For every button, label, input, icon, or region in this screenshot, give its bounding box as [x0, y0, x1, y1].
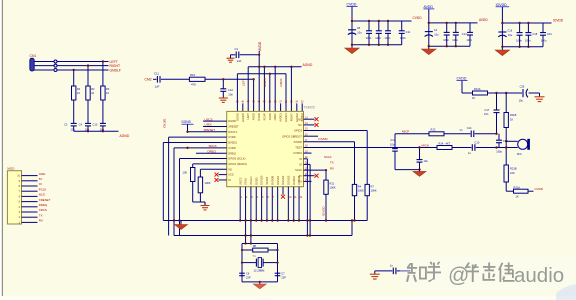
node junctions IOVDD — [501, 22, 529, 48]
wire CM2 to C11 — [153, 78, 157, 80]
capacitor C14m — [471, 131, 474, 138]
svg-text:R4: R4 — [358, 185, 362, 189]
wire top pin 10 — [285, 74, 287, 112]
resistor R1 — [72, 86, 76, 100]
wire pin L8 — [180, 158, 227, 160]
wire pin R12 stub — [304, 180, 312, 182]
power ground IOVDD — [495, 50, 509, 56]
svg-text:IO: IO — [299, 163, 302, 167]
wire drop to C17col — [496, 93, 498, 110]
wire gnd to C1 — [230, 55, 232, 58]
svg-text:100n: 100n — [466, 38, 472, 42]
wire to R12A — [462, 92, 473, 94]
wire C20 stem — [419, 148, 421, 160]
pin names left column — [228, 119, 247, 182]
capacitor C17f — [392, 149, 398, 152]
capacitor C4a (polarized) — [425, 32, 433, 37]
svg-text:USDI: USDI — [205, 123, 212, 127]
node junctions crystal — [241, 242, 279, 283]
svg-text:CVDD: CVDD — [457, 77, 467, 81]
svg-text:SCLK: SCLK — [295, 168, 302, 172]
wire AVDD stem — [428, 9, 430, 49]
node junctions bus A — [173, 219, 356, 221]
node junctions mic — [418, 133, 507, 171]
svg-text:DREQ: DREQ — [39, 203, 48, 207]
svg-text:AGND2: AGND2 — [295, 113, 299, 122]
svg-text:audio: audio — [514, 264, 564, 287]
svg-text:C4: C4 — [434, 28, 438, 32]
node junctions bus B — [244, 234, 311, 236]
svg-text:10u: 10u — [357, 31, 362, 35]
svg-text:10n: 10n — [484, 112, 489, 116]
svg-text:XDCS: XDCS — [238, 177, 242, 184]
svg-text:MOD: MOD — [7, 167, 15, 171]
svg-text:SDCS: SDCS — [209, 144, 217, 148]
svg-text:GPIO1 (SDATA): GPIO1 (SDATA) — [228, 162, 247, 166]
svg-text:C2: C2 — [64, 123, 68, 127]
svg-text:100n: 100n — [452, 38, 458, 42]
wire drop x310 — [309, 164, 311, 235]
svg-text:XRESET: XRESET — [39, 198, 51, 202]
connector CN1 jack body — [30, 58, 34, 71]
svg-text:C10: C10 — [93, 123, 98, 127]
svg-text:100K: 100K — [330, 186, 336, 190]
svg-text:C14: C14 — [467, 126, 472, 130]
svg-text:IO: IO — [228, 178, 231, 182]
svg-text:5V: 5V — [39, 177, 43, 181]
svg-text:GBUF: GBUF — [273, 113, 277, 121]
ground left of C1 — [227, 58, 235, 62]
svg-text:XCS: XCS — [228, 173, 234, 177]
svg-text:AGND: AGND — [120, 134, 130, 138]
resistor R11B — [504, 113, 508, 128]
wire net LEFT — [57, 61, 109, 63]
svg-text:AVDD2: AVDD2 — [300, 113, 304, 122]
svg-text:GBUF: GBUF — [279, 78, 283, 87]
no-connect X pin B9 — [281, 195, 285, 199]
svg-text:CM2: CM2 — [145, 78, 152, 82]
resistor R4 — [352, 184, 356, 195]
wire pin R8 — [304, 158, 308, 160]
no-connect X pin L12 — [215, 178, 219, 182]
ground below R5 R6 — [201, 202, 210, 210]
svg-text:10n: 10n — [100, 128, 105, 132]
svg-text:100n: 100n — [366, 36, 372, 40]
wire R3 to C10 — [102, 100, 104, 123]
wire bus B — [174, 235, 352, 237]
svg-text:10n: 10n — [71, 128, 76, 132]
svg-text:C11: C11 — [154, 72, 159, 76]
wire pin L4 — [169, 136, 227, 138]
wire R10 to chip — [205, 78, 254, 80]
pin numbers bottom — [241, 197, 303, 199]
capacitor C16 (polarized) — [498, 32, 506, 37]
svg-text:100K: 100K — [371, 189, 377, 193]
pin numbers right — [305, 117, 308, 181]
svg-text:AGND1: AGND1 — [284, 113, 288, 122]
wire top pin 4 — [253, 79, 255, 111]
pin names right column — [282, 117, 302, 183]
hanzi zhi2 — [483, 263, 496, 281]
wires MOD pins — [22, 176, 38, 223]
wire pin R5 to R4 drop — [304, 141, 355, 143]
capacitor C10m — [472, 144, 475, 151]
svg-text:R11B: R11B — [510, 113, 517, 117]
wire crystal top rail — [242, 243, 278, 245]
svg-text:DGND: DGND — [228, 119, 236, 123]
svg-text:22P: 22P — [281, 276, 286, 280]
wire vertical bus drop x174 — [173, 148, 175, 236]
wire CVDD bottom rail — [352, 44, 402, 46]
wire pin B10 — [287, 187, 289, 221]
wire R8 row — [242, 249, 253, 251]
wire caps to AGND rail — [73, 126, 75, 131]
svg-text:MICP: MICP — [402, 129, 409, 133]
wire top pin 13 stub — [301, 103, 303, 111]
svg-text:AVDD1: AVDD1 — [279, 113, 283, 122]
power ground CVDD — [345, 48, 359, 54]
wire pin B7 — [271, 187, 273, 221]
resistor R14 — [437, 146, 452, 150]
svg-text:100n: 100n — [525, 38, 531, 42]
capacitor C6 — [239, 273, 245, 276]
svg-text:R21B: R21B — [510, 167, 517, 171]
capacitor C20 — [417, 160, 423, 163]
svg-text:AVDD: AVDD — [424, 5, 434, 9]
svg-text:10u: 10u — [424, 159, 429, 163]
svg-text:C4: C4 — [79, 123, 83, 127]
wire top pin 6 — [263, 67, 265, 112]
wire top pin 12 stub — [296, 103, 298, 111]
svg-text:100n: 100n — [541, 38, 547, 42]
svg-text:DVDD1: DVDD1 — [292, 175, 296, 184]
hanzi zhi — [406, 263, 427, 282]
wire ground stem — [259, 282, 261, 284]
svg-text:USCS: USCS — [205, 117, 213, 121]
capacitor C13 — [393, 268, 396, 275]
svg-text:IOVDD: IOVDD — [318, 137, 327, 141]
svg-text:NCS: NCS — [39, 193, 45, 197]
wire net RIGHT — [57, 65, 109, 67]
wire top pin 2 stub — [242, 103, 244, 111]
wire LEFT — [34, 61, 54, 63]
value labels C2 C4 C10 — [64, 123, 105, 132]
svg-text:10n: 10n — [228, 92, 233, 96]
svg-text:1K: 1K — [510, 118, 513, 122]
svg-text:GPIO0 (SCLK): GPIO0 (SCLK) — [228, 157, 245, 161]
svg-text:XTALO: XTALO — [249, 176, 253, 184]
svg-text:C16: C16 — [507, 28, 512, 32]
capacitor C1 — [236, 52, 239, 59]
no-connect X pin R11 — [315, 174, 319, 178]
svg-text:LEFT: LEFT — [242, 78, 246, 86]
wire pin L2 — [203, 125, 227, 127]
wire CVDD top rail — [352, 20, 412, 22]
capacitor C9b — [378, 21, 380, 31]
wire net GNDLF — [57, 69, 109, 71]
wire pin L5 — [163, 142, 226, 144]
net labels MOD — [39, 172, 51, 223]
wire vertical bus drop x163 — [162, 143, 164, 221]
svg-text:100K: 100K — [205, 181, 211, 185]
svg-text:CVDD: CVDD — [535, 187, 544, 191]
svg-text:IOVDD: IOVDD — [294, 140, 302, 144]
ground on bus A — [175, 221, 188, 230]
wire AVDD vertical — [258, 51, 260, 112]
svg-text:CVDD: CVDD — [347, 2, 357, 6]
svg-text:10u: 10u — [434, 32, 439, 36]
wire left leg — [241, 244, 243, 282]
wire drop x307 — [306, 159, 308, 236]
svg-text:22P: 22P — [246, 276, 251, 280]
svg-text:DGND: DGND — [182, 120, 192, 124]
wire C1 to AVDD stub — [240, 54, 260, 56]
svg-text:RIGHT: RIGHT — [289, 113, 293, 121]
svg-text:CVDD1: CVDD1 — [293, 151, 302, 155]
svg-text:R7: R7 — [371, 185, 375, 189]
svg-text:R12A: R12A — [474, 87, 481, 91]
resistor R21A — [514, 189, 529, 193]
svg-text:TX: TX — [39, 213, 43, 217]
svg-text:XDCS: XDCS — [39, 208, 47, 212]
svg-text:IO: IO — [299, 157, 302, 161]
svg-text:10K: 10K — [510, 171, 515, 175]
wire bus A — [163, 220, 367, 222]
wire top pin 1 — [236, 74, 238, 112]
svg-text:C6: C6 — [246, 272, 250, 276]
hanzi jian — [498, 263, 515, 283]
wire pin B11 — [293, 187, 295, 221]
resistor R11 — [324, 180, 328, 194]
wire pin B1 — [239, 187, 241, 221]
svg-text:1K: 1K — [472, 96, 475, 100]
svg-text:PCLK: PCLK — [39, 187, 47, 191]
jack contact circles — [54, 60, 57, 63]
svg-text:TS4605: TS4605 — [304, 106, 315, 110]
svg-text:MIC: MIC — [517, 152, 522, 156]
node junctions jack nets — [73, 60, 105, 132]
wire top pin 9 stub — [280, 103, 282, 111]
wire R13 to C14m — [444, 133, 470, 135]
svg-text:100K: 100K — [358, 189, 364, 193]
svg-text:CVDD: CVDD — [228, 135, 235, 139]
resistor R21B — [504, 165, 508, 182]
svg-text:10u: 10u — [519, 99, 524, 103]
no-connect X pin L11 — [215, 173, 219, 177]
svg-text:RIGHT: RIGHT — [263, 78, 267, 88]
wire C11 to R10 — [161, 78, 190, 80]
hanzi hu — [427, 262, 441, 283]
capacitor C2 — [71, 123, 77, 126]
wire CVDD stem down — [461, 81, 463, 93]
pin numbers MOD — [17, 175, 20, 225]
wire R14 to C10m — [452, 147, 471, 149]
svg-text:XRESET: XRESET — [228, 125, 239, 129]
svg-text:1uF: 1uF — [155, 85, 160, 89]
node junction R10/C12 — [222, 78, 224, 80]
node junctions CVDD bias — [495, 92, 507, 94]
svg-text:TX: TX — [330, 161, 334, 165]
svg-text:DGND: DGND — [235, 113, 239, 121]
wire pin R2 stub — [304, 124, 315, 126]
wire top pin 8 — [274, 67, 276, 112]
op-amp U1 body — [227, 111, 304, 186]
svg-text:GPIO2 GBRDOT: GPIO2 GBRDOT — [282, 134, 302, 138]
wire gnd to C13 — [375, 270, 393, 272]
ground mic bias — [413, 170, 426, 177]
no-connect X pin R2 — [315, 123, 319, 127]
svg-text:AGND0: AGND0 — [241, 113, 245, 122]
wire pin L1 — [203, 120, 227, 122]
wire AVDD top rail — [429, 22, 478, 24]
svg-text:LEFT: LEFT — [110, 60, 118, 64]
wire vertical bus drop x168 — [168, 137, 170, 235]
svg-text:DGND2: DGND2 — [281, 175, 285, 185]
wire C26 to ground — [529, 92, 540, 94]
svg-text:R14: R14 — [439, 142, 444, 146]
svg-text:CVDD: CVDD — [413, 16, 423, 20]
wire pin B8 — [277, 187, 279, 221]
svg-text:10u: 10u — [390, 142, 395, 146]
svg-text:12.288M: 12.288M — [254, 269, 266, 273]
svg-text:IOVDD: IOVDD — [553, 18, 564, 22]
resistor R6 — [199, 169, 201, 177]
wire pin B6 — [266, 187, 268, 221]
node junctions AVDD — [428, 22, 457, 48]
wire bus A-B link — [351, 221, 353, 236]
capacitor C26 (polarized) — [523, 89, 528, 98]
resistor R13 — [429, 132, 444, 136]
svg-text:AVDD: AVDD — [268, 113, 272, 120]
wire pin L7 DREQ — [196, 152, 227, 154]
capacitor C17 — [494, 110, 500, 113]
svg-text:10K: 10K — [183, 171, 188, 175]
svg-text:R1: R1 — [77, 87, 81, 91]
wire pin B9 stub — [282, 187, 284, 195]
svg-text:SCLK: SCLK — [324, 155, 332, 159]
svg-text:100n: 100n — [375, 36, 381, 40]
wire pin L6 — [174, 147, 227, 149]
microphone MIC1 — [518, 139, 529, 150]
wire top pin 7 — [269, 74, 271, 112]
wire pin R1 stub — [304, 118, 315, 120]
wire pin B4 — [255, 187, 257, 221]
svg-text:C24: C24 — [547, 32, 552, 36]
node junction DGND/L3 — [186, 131, 188, 133]
svg-text:10n: 10n — [85, 128, 90, 132]
wire CVDD stem — [351, 7, 353, 48]
wire drop to R4 — [354, 142, 356, 185]
wire pin R9 — [304, 163, 311, 165]
resistor R2 — [86, 86, 90, 100]
svg-text:LEFT: LEFT — [246, 113, 250, 120]
svg-text:100n: 100n — [385, 36, 391, 40]
wire IOVDD stem — [501, 7, 503, 50]
node junctions rails — [252, 54, 292, 81]
svg-text:100n: 100n — [443, 38, 449, 42]
node junction L6 — [186, 147, 188, 149]
wire pin R6 MICN long — [304, 147, 438, 149]
pin names bottom row (vertical) — [238, 175, 301, 185]
wire crystal row — [242, 262, 256, 264]
svg-text:CN1B1: CN1B1 — [163, 118, 167, 128]
svg-text:GND: GND — [39, 172, 45, 176]
svg-text:XRESET: XRESET — [204, 128, 216, 132]
wire pin B12 — [298, 187, 300, 221]
svg-text:DGND0: DGND0 — [260, 175, 264, 185]
svg-text:STA1B: STA1B — [265, 177, 269, 185]
svg-text:DREQ: DREQ — [208, 149, 217, 153]
wire R2 to C4 — [87, 100, 89, 123]
svg-text:4K7: 4K7 — [446, 142, 451, 146]
svg-text:DOUT1: DOUT1 — [228, 130, 237, 134]
svg-text:R8: R8 — [253, 244, 257, 248]
svg-text:C18: C18 — [532, 32, 537, 36]
svg-text:XTALI: XTALI — [244, 178, 248, 185]
capacitor C18 — [527, 23, 529, 33]
wire IOVDD top rail — [502, 22, 551, 24]
wire drop to R1 — [73, 70, 75, 86]
wire mic top lead — [506, 140, 518, 142]
wire pin R3 to R7 drop — [304, 130, 368, 132]
svg-text:CN1: CN1 — [30, 54, 37, 58]
svg-text:Y1: Y1 — [253, 254, 257, 258]
wire drop to R2 — [87, 66, 89, 86]
svg-text:CVDD: CVDD — [228, 146, 235, 150]
resistor R5 — [192, 164, 194, 168]
svg-text:NC: NC — [298, 123, 302, 127]
svg-text:R21A: R21A — [514, 185, 521, 189]
wire pin L11 stub — [219, 174, 227, 176]
wire C10m to mic — [476, 147, 518, 149]
wire pin R7 — [304, 152, 312, 154]
no-connect X pin R1 — [315, 117, 319, 121]
capacitor C12 — [220, 89, 226, 92]
wire R1 to C2 — [73, 100, 75, 123]
wire pin L10 to R6 — [200, 168, 226, 170]
svg-text:AVDD: AVDD — [479, 18, 488, 22]
resistor R8 — [253, 248, 268, 252]
capacitor C5b — [455, 23, 457, 33]
wire right leg — [277, 244, 279, 282]
ground right of C26 — [535, 97, 545, 102]
wire top pin 3 — [247, 67, 249, 112]
svg-text:47K: 47K — [191, 83, 196, 87]
svg-text:AVDD: AVDD — [258, 41, 262, 51]
wire GNDLF — [34, 69, 54, 71]
svg-text:DREQ: DREQ — [228, 151, 236, 155]
power ground AVDD — [422, 49, 436, 55]
svg-text:R10: R10 — [190, 73, 196, 77]
wire rail1 to AGND — [248, 66, 301, 68]
svg-text:C14: C14 — [462, 32, 467, 36]
value labels R1 R2 R3 — [77, 87, 110, 95]
svg-text:XD: XD — [228, 167, 232, 171]
wire AGND rail — [74, 130, 119, 132]
svg-text:100n: 100n — [516, 38, 522, 42]
svg-text:DGND3: DGND3 — [287, 175, 291, 185]
pin names top row (vertical) — [235, 113, 304, 122]
wire rail2 — [237, 73, 286, 75]
wire drop to R11B — [505, 93, 507, 113]
svg-text:R11: R11 — [330, 182, 335, 186]
wire crystal bottom rail — [242, 281, 278, 283]
svg-text:10u: 10u — [508, 33, 513, 37]
wire pin B2 XTALI — [245, 187, 247, 244]
resistor R7 — [365, 184, 369, 195]
wire AVDD bottom rail — [429, 45, 470, 47]
svg-text:C17: C17 — [485, 108, 490, 112]
